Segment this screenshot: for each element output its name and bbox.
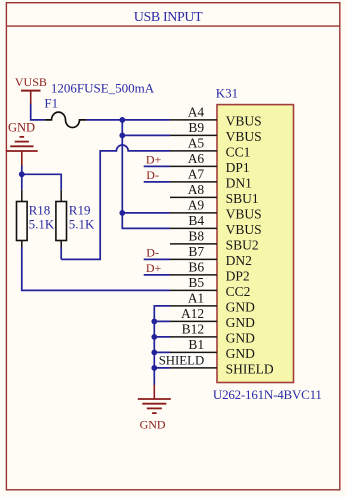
svg-text:A7: A7 xyxy=(188,167,205,182)
svg-text:B12: B12 xyxy=(182,322,205,337)
svg-text:GND: GND xyxy=(226,299,255,314)
svg-text:VBUS: VBUS xyxy=(226,129,262,144)
svg-text:DN2: DN2 xyxy=(226,253,252,268)
svg-text:VBUS: VBUS xyxy=(226,206,262,221)
svg-text:A1: A1 xyxy=(188,291,205,306)
svg-text:A12: A12 xyxy=(181,306,204,321)
svg-text:SHIELD: SHIELD xyxy=(226,361,274,376)
svg-text:B6: B6 xyxy=(188,260,204,275)
svg-text:DN1: DN1 xyxy=(226,175,252,190)
svg-text:R19: R19 xyxy=(69,202,91,217)
svg-text:GND: GND xyxy=(140,418,166,432)
svg-text:K31: K31 xyxy=(216,86,238,101)
svg-text:D-: D- xyxy=(146,246,159,260)
svg-text:SBU1: SBU1 xyxy=(226,191,259,206)
svg-text:A8: A8 xyxy=(188,182,205,197)
svg-text:SBU2: SBU2 xyxy=(226,237,259,252)
svg-text:A4: A4 xyxy=(188,105,205,120)
svg-text:CC1: CC1 xyxy=(226,144,251,159)
svg-text:SHIELD: SHIELD xyxy=(159,354,205,368)
svg-text:GND: GND xyxy=(226,330,255,345)
svg-text:GND: GND xyxy=(8,121,35,135)
svg-text:U262-161N-4BVC11: U262-161N-4BVC11 xyxy=(213,387,322,402)
svg-text:VBUS: VBUS xyxy=(226,113,262,128)
svg-text:B7: B7 xyxy=(188,244,204,259)
svg-text:F1: F1 xyxy=(44,95,58,110)
svg-text:CC2: CC2 xyxy=(226,284,251,299)
svg-text:VBUS: VBUS xyxy=(226,222,262,237)
svg-text:R18: R18 xyxy=(29,202,51,217)
svg-text:GND: GND xyxy=(226,315,255,330)
svg-text:A5: A5 xyxy=(188,136,205,151)
svg-text:B1: B1 xyxy=(188,337,204,352)
svg-text:1206FUSE_500mA: 1206FUSE_500mA xyxy=(51,80,155,95)
svg-text:A9: A9 xyxy=(188,198,205,213)
svg-text:USB INPUT: USB INPUT xyxy=(134,10,203,25)
svg-text:B4: B4 xyxy=(188,213,204,228)
svg-text:B8: B8 xyxy=(188,229,204,244)
svg-text:5.1K: 5.1K xyxy=(29,216,55,231)
svg-text:B9: B9 xyxy=(188,120,204,135)
svg-text:5.1K: 5.1K xyxy=(69,216,95,231)
svg-text:A6: A6 xyxy=(188,151,205,166)
svg-text:VUSB: VUSB xyxy=(15,75,47,89)
svg-text:D+: D+ xyxy=(146,261,162,275)
svg-text:GND: GND xyxy=(226,346,255,361)
svg-text:B5: B5 xyxy=(188,275,204,290)
svg-text:DP2: DP2 xyxy=(226,268,250,283)
svg-text:DP1: DP1 xyxy=(226,160,250,175)
svg-text:D-: D- xyxy=(146,168,159,182)
svg-text:D+: D+ xyxy=(146,153,162,167)
